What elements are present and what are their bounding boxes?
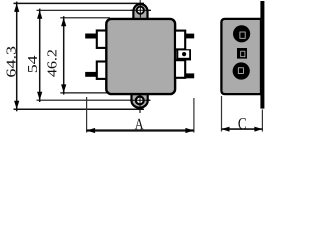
extension line 54 top (hole center tick)	[37, 9, 152, 11]
extension line 64.3 top	[14, 2, 145, 4]
connector body (side view)	[221, 19, 261, 94]
dimension line A	[87, 129, 194, 131]
extension line 46.2 top	[60, 17, 110, 19]
terminal upper-right insulator	[175, 31, 185, 50]
bottom ear hole	[136, 97, 144, 105]
extension line 46.2 bottom	[60, 92, 110, 94]
top ear hole	[137, 7, 144, 14]
terminal lower-right blade	[185, 73, 194, 78]
terminal lower-right insulator	[175, 60, 185, 78]
filter body (front view)	[106, 19, 175, 94]
terminal upper-left insulator	[97, 31, 107, 48]
ground lug slot	[178, 50, 189, 57]
bottom mounting ear	[132, 94, 148, 108]
ground lug screw dot	[182, 52, 186, 56]
label A	[135, 119, 144, 130]
top mounting ear	[133, 4, 147, 21]
dim C right extension	[261, 110, 263, 132]
centerline top ear	[139, 0, 141, 19]
label 46.2	[47, 50, 56, 77]
pin top (socket)	[233, 25, 250, 42]
dim C left extension	[221, 96, 223, 132]
label C	[238, 118, 245, 129]
dim A left extension	[86, 97, 88, 133]
extension line 54 bottom (hole center tick)	[37, 99, 151, 101]
terminal lower-left insulator	[97, 62, 107, 79]
extension line 64.3 bottom	[14, 108, 145, 110]
dimension line C	[222, 128, 263, 130]
panel flange bar (side view)	[260, 1, 264, 109]
top hole crosshair	[131, 9, 151, 11]
ground lug frame	[177, 49, 192, 60]
label 64.3	[7, 47, 16, 77]
terminal lower-left blade	[85, 72, 97, 77]
centerline bottom ear	[139, 95, 141, 113]
dimension line 46.2	[63, 16, 65, 94]
terminal upper-right blade	[185, 34, 194, 39]
dimension line 54	[39, 9, 41, 102]
dimension line 64.3	[16, 2, 18, 112]
bottom hole crosshair	[130, 99, 150, 101]
terminal upper-left blade	[85, 34, 97, 39]
pin middle (ground socket)	[237, 48, 247, 59]
label 54	[28, 56, 37, 72]
dim A right extension	[193, 98, 195, 133]
pin bottom (socket)	[233, 62, 250, 79]
